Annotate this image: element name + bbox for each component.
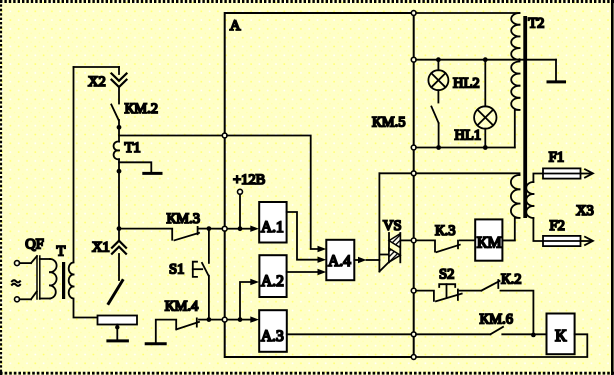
box A.2	[259, 255, 286, 297]
wire resistor to ground	[116, 325, 118, 340]
K.3 tick	[457, 241, 459, 249]
switch blade (X1 disconnect)	[109, 281, 123, 304]
wire node to block A pin	[209, 319, 223, 321]
wire VS stub	[379, 254, 389, 256]
svg-text:К: К	[555, 326, 567, 345]
contact KM.3	[175, 233, 200, 240]
junction dot T1 top	[117, 125, 122, 130]
contact K.3	[437, 245, 460, 252]
wire pin to KM.6	[416, 333, 490, 335]
relay coil KM	[475, 219, 502, 260]
junction dot +12V node	[238, 226, 243, 231]
box A.1	[259, 202, 286, 243]
junction dot S1 branch	[207, 226, 212, 231]
junction dot K.2/KM.6	[531, 333, 536, 338]
svg-text:QF: QF	[25, 237, 44, 253]
box A.4	[326, 240, 354, 280]
svg-text:А: А	[230, 18, 241, 34]
svg-text:Т: Т	[57, 244, 66, 260]
terminal circle (mains L)	[15, 261, 20, 266]
wire section3 bottom to KM	[502, 218, 519, 241]
wire lamp return bus	[416, 147, 515, 149]
wire HL2 bottom	[437, 90, 439, 102]
transformer T2 winding section 3	[511, 175, 520, 218]
contact KM.4	[176, 322, 199, 330]
contact KM.6	[490, 327, 503, 334]
wire vertical to X1	[118, 171, 120, 240]
wire mains N	[20, 298, 32, 300]
transformer T secondary winding	[69, 263, 74, 299]
transformer T2 winding section 1	[511, 13, 519, 60]
transformer T2 secondary winding	[526, 182, 533, 218]
svg-text:Х2: Х2	[88, 74, 106, 90]
wire X1 node to KM.3	[119, 229, 172, 240]
wire K.2 to KM.6 node	[501, 291, 534, 335]
contact KM.5	[431, 107, 438, 124]
wire S1 drop	[208, 231, 210, 263]
junction dot branch A.2/A.3	[238, 317, 243, 322]
contact K.2	[481, 281, 499, 291]
wire ground to KM.4	[156, 320, 176, 343]
wire T1 ground branch	[119, 162, 151, 172]
wire K return loop	[416, 334, 587, 357]
terminal +12V	[238, 189, 243, 194]
svg-text:Х1: Х1	[92, 240, 110, 256]
contact KM.2	[111, 105, 118, 121]
junction dot HL1 top	[483, 57, 488, 62]
connector X2	[112, 74, 127, 88]
transformer T2 winding section 2	[511, 62, 519, 110]
svg-text:А.4: А.4	[328, 253, 351, 270]
wire arrow into A.1	[240, 228, 251, 230]
wire K.3 to KM coil	[460, 239, 475, 241]
AC symbol	[12, 280, 20, 286]
wire pin to T2 section 3	[416, 173, 519, 175]
svg-text:F2: F2	[550, 218, 565, 234]
wire A.1 output to A.4	[287, 212, 318, 260]
transformer T2 core	[523, 16, 527, 218]
fuse F2	[543, 236, 581, 246]
wire mains L	[20, 262, 32, 264]
wire KM.5 to bus	[438, 123, 440, 148]
block A outline	[225, 13, 414, 357]
K.2 tick	[497, 280, 499, 288]
wire node to block A pin	[209, 228, 223, 230]
junction dot HL2 top	[436, 57, 441, 62]
svg-text:Х3: Х3	[576, 203, 594, 219]
resistor (ballast)	[98, 316, 138, 325]
svg-text:Т1: Т1	[125, 140, 141, 156]
wire below X2	[118, 88, 120, 104]
KM.3 tick	[197, 227, 199, 234]
wire branch up to A.2	[240, 282, 251, 320]
transformer T core	[62, 262, 65, 299]
wire secondary bottom to F2	[533, 218, 542, 241]
wire S1 to KM.4 node	[208, 276, 210, 320]
svg-text:К.2: К.2	[501, 272, 522, 288]
terminal circle (mains N)	[15, 297, 20, 302]
wire KM.4 to node	[199, 319, 209, 321]
wire left vertical (mains riser)	[73, 67, 75, 262]
svg-text:+12В: +12В	[233, 172, 265, 188]
wire lamp bus	[416, 59, 556, 61]
wire HL1 stem	[484, 60, 486, 107]
junction dot T1 bottom	[117, 169, 122, 174]
fuse F1	[543, 168, 581, 178]
lamp HL1	[474, 106, 496, 128]
wire below X1	[118, 254, 120, 280]
terminal pin (T1 tap)	[222, 133, 227, 138]
svg-text:S2: S2	[439, 267, 454, 283]
wire T1 tap to block A	[119, 135, 222, 137]
wire VS to pin	[400, 239, 411, 241]
transformer T1 winding	[114, 142, 119, 160]
svg-text:КМ: КМ	[477, 235, 502, 252]
ground (T2)	[548, 80, 565, 83]
terminal pin (KM.3 input)	[222, 226, 227, 231]
wire ground drop T2	[555, 60, 557, 81]
wire S2 to K.2	[460, 290, 482, 292]
wire T1 bottom to node	[118, 159, 120, 171]
breaker QF contacts	[31, 256, 40, 299]
junction dot KM.5 bottom	[436, 145, 441, 150]
svg-text:КМ.5: КМ.5	[372, 115, 405, 131]
wire node to T1 coil	[118, 127, 120, 141]
wire KM.3 to node	[199, 228, 209, 230]
wire A.3 output to pin	[287, 333, 412, 335]
svg-text:А.2: А.2	[261, 273, 284, 290]
wire KM to T2	[502, 239, 514, 241]
svg-text:S1: S1	[169, 262, 184, 278]
wire A.4 output to VS gate	[354, 259, 358, 261]
transformer T primary wires	[40, 258, 50, 260]
junction T2 tap	[518, 58, 521, 61]
lamp HL2	[428, 70, 448, 90]
svg-text:А.1: А.1	[261, 219, 284, 236]
wire X2 drop	[118, 67, 120, 74]
connector X1	[112, 241, 126, 254]
svg-text:КМ.6: КМ.6	[480, 312, 513, 328]
junction dot under resistor	[115, 325, 119, 329]
wire A.2 output to A.4	[287, 271, 318, 273]
svg-text:А.3: А.3	[261, 328, 284, 345]
svg-text:КМ.4: КМ.4	[165, 299, 199, 315]
wire HL1 bottom	[484, 129, 486, 148]
button S2	[436, 284, 462, 301]
ground (resistor)	[108, 339, 128, 342]
wire pin to S2	[416, 291, 434, 301]
wire top-left horizontal	[74, 66, 120, 68]
svg-text:Т2: Т2	[528, 15, 544, 31]
wire top to T2	[416, 12, 519, 14]
junction dot X1 node	[117, 226, 122, 231]
svg-text:HL1: HL1	[455, 128, 482, 144]
svg-text:К.3: К.3	[435, 223, 456, 239]
wire section2 bottom link	[515, 110, 520, 148]
junction dot KM.4 node	[207, 317, 212, 322]
wire pin to +12V node	[227, 228, 240, 230]
wire secondary top to F1	[533, 174, 543, 183]
wire arrow into A.3	[240, 319, 251, 321]
wire KM.6 to relay K	[502, 333, 546, 335]
wire transformer to resistor	[74, 300, 98, 318]
junction dot HL1 bottom	[483, 145, 488, 150]
block A right-edge pins	[411, 11, 416, 16]
ground (KM.4)	[146, 342, 165, 345]
wire F1 arrow out	[581, 173, 592, 175]
wire VS anode from pin	[379, 172, 411, 174]
wire +12V drop	[239, 194, 241, 228]
ground (T1)	[144, 172, 161, 175]
wire VS vertical	[378, 173, 380, 271]
transformer T primary winding	[50, 259, 57, 299]
button S1	[193, 262, 209, 277]
wire HL2 stem	[437, 60, 439, 70]
wire F2 arrow out	[581, 240, 592, 242]
svg-text:КМ.3: КМ.3	[167, 211, 200, 227]
box A.3	[259, 310, 287, 352]
VS gate diagonal	[379, 256, 395, 272]
KM.4 tick	[196, 318, 198, 326]
relay coil K	[547, 314, 575, 355]
terminal pin (KM.4 input)	[222, 317, 227, 322]
wire pin to branch node	[227, 319, 240, 321]
wire KM.2 to node	[118, 120, 120, 127]
svg-text:HL2: HL2	[453, 76, 480, 92]
wire T1 tap inside block A	[227, 136, 318, 250]
svg-text:VS: VS	[383, 218, 402, 234]
svg-text:F1: F1	[549, 149, 564, 165]
triac VS	[389, 233, 400, 262]
wire pin to K.3	[416, 240, 435, 251]
svg-text:КМ.2: КМ.2	[125, 101, 158, 117]
